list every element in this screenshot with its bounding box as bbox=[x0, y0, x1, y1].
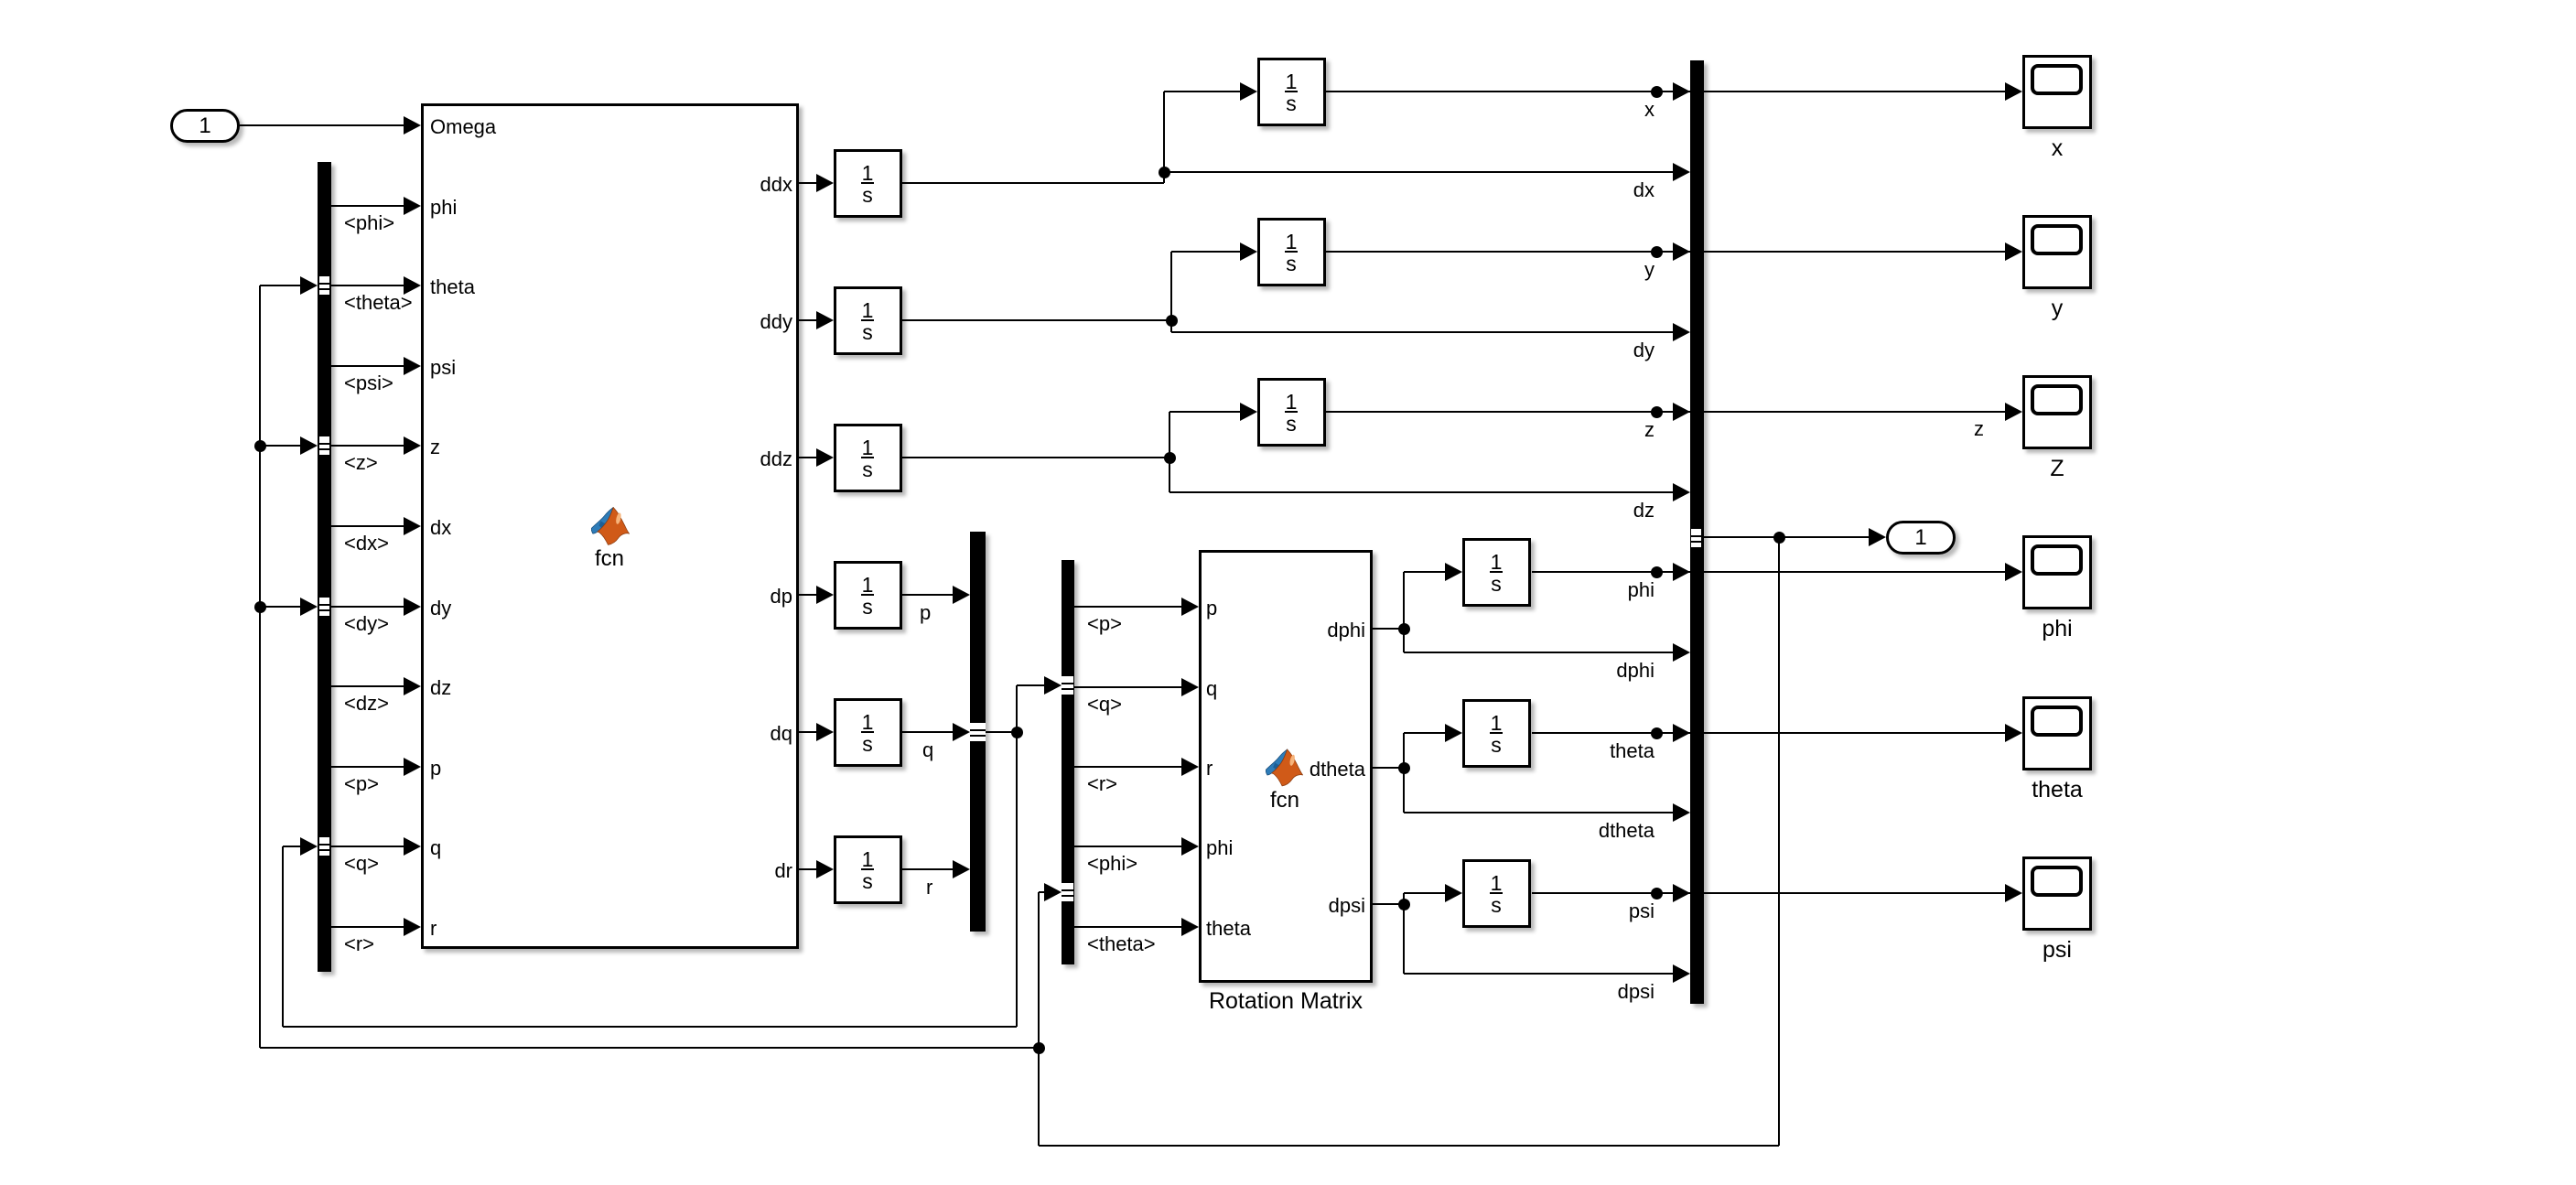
wire y out to scope bbox=[1326, 251, 2006, 253]
arrowhead into fcn z bbox=[404, 436, 421, 455]
wire demux1 dy out bbox=[331, 606, 404, 608]
integrator ddy 1/s bbox=[834, 286, 902, 355]
label RM port r bbox=[1206, 759, 1213, 779]
arrowhead into theta integrator bbox=[1445, 724, 1462, 742]
wire ddz integrator out bbox=[902, 457, 1169, 458]
junction output node bbox=[1773, 532, 1785, 544]
integrator phi 1/s bbox=[1462, 538, 1531, 607]
label fcn port theta bbox=[430, 277, 475, 297]
label fcn port dp bbox=[771, 587, 792, 607]
wire fcn ddx out bbox=[799, 182, 817, 184]
label fcn port r bbox=[430, 919, 437, 939]
integrator dq 1/s bbox=[834, 698, 902, 767]
label scope name psi bbox=[1874, 939, 2240, 962]
arrowhead demux2 lower collar bbox=[1044, 883, 1062, 901]
scope theta bbox=[2022, 696, 2092, 770]
output mux bar bbox=[1690, 60, 1704, 1004]
arrowhead into integrator dr bbox=[816, 860, 834, 878]
wire demux1 dz out bbox=[331, 685, 404, 687]
mux output collar bbox=[1691, 529, 1701, 547]
arrowhead outport bbox=[1869, 528, 1886, 546]
wire feedback state bottom bbox=[260, 1047, 1039, 1049]
arrowhead into psi integrator bbox=[1445, 884, 1462, 902]
integrator theta 1/s bbox=[1462, 699, 1531, 768]
label select label2 <phi> bbox=[1087, 854, 1137, 874]
arrowhead into y integrator bbox=[1240, 242, 1257, 261]
arrowhead into x integrator bbox=[1240, 82, 1257, 101]
label fcn port ddx bbox=[760, 175, 792, 195]
wire RM dtheta out bbox=[1373, 767, 1404, 769]
outport block 1 bbox=[1886, 521, 1956, 555]
arrowhead into fcn dy bbox=[404, 598, 421, 616]
wire mux out bbox=[1704, 536, 1870, 538]
wire demux1 z out bbox=[331, 445, 404, 447]
wire dpsi to mux bbox=[1404, 973, 1674, 975]
label fcn port z bbox=[430, 437, 440, 458]
arrowhead mux psi bbox=[1673, 884, 1690, 902]
wire p to mux1 bbox=[902, 594, 954, 596]
wire to demux2 lower bbox=[1039, 891, 1045, 893]
label select label <p> bbox=[344, 774, 379, 794]
demux2 collar lower bbox=[1062, 883, 1073, 901]
arrowhead scope y bbox=[2005, 242, 2022, 261]
junction y node bbox=[1651, 246, 1663, 258]
wire feedback state stub theta bbox=[260, 285, 301, 286]
wire demux1 psi out bbox=[331, 365, 404, 367]
arrowhead mux1 q bbox=[953, 723, 970, 741]
label fcn port p bbox=[430, 759, 441, 779]
wire to z integrator bbox=[1169, 411, 1241, 413]
label scope name y bbox=[1874, 297, 2240, 320]
label fcn port q bbox=[430, 838, 441, 858]
label fcn port ddz bbox=[760, 449, 792, 469]
scope Z bbox=[2022, 375, 2092, 449]
wire demux1 phi out bbox=[331, 205, 404, 207]
junction dtheta node bbox=[1398, 762, 1410, 774]
wire fcn dp out bbox=[799, 594, 817, 596]
wire demux1 theta out bbox=[331, 285, 404, 286]
arrowhead into integrator ddz bbox=[816, 448, 834, 467]
junction feedback split bbox=[1033, 1042, 1045, 1054]
demux2 collar upper bbox=[1062, 676, 1073, 695]
label wire label r bbox=[926, 878, 932, 898]
arrowhead demux1 q collar bbox=[300, 837, 318, 856]
label fcn port phi bbox=[430, 198, 457, 218]
arrowhead demux1 dy collar bbox=[300, 598, 318, 616]
wire dy to mux bbox=[1171, 331, 1674, 333]
label wire label dx at mux bbox=[1633, 180, 1654, 200]
wire demux1 p out bbox=[331, 766, 404, 768]
wire q loop bottom bbox=[283, 1026, 1017, 1028]
demux1 collar z bbox=[319, 436, 329, 455]
wire dz to mux bbox=[1169, 491, 1674, 493]
wire dpsi to integrator bbox=[1404, 892, 1446, 894]
wire dtheta to mux bbox=[1404, 812, 1674, 813]
arrowhead RM p bbox=[1181, 598, 1199, 616]
label RM port phi bbox=[1206, 838, 1233, 858]
scope x bbox=[2022, 55, 2092, 129]
arrowhead scope theta bbox=[2005, 724, 2022, 742]
wire ddx riser bbox=[1163, 92, 1165, 183]
wire q loop down bbox=[1016, 732, 1018, 1027]
wire fcn ddz out bbox=[799, 457, 817, 458]
arrowhead scope phi bbox=[2005, 563, 2022, 581]
label wire label q bbox=[922, 740, 933, 760]
junction x node bbox=[1651, 86, 1663, 98]
mux1 output collar bbox=[970, 723, 986, 741]
label RM port p bbox=[1206, 598, 1217, 619]
arrowhead into fcn phi bbox=[404, 197, 421, 215]
arrowhead demux2 upper collar bbox=[1044, 676, 1062, 695]
junction dphi node bbox=[1398, 623, 1410, 635]
label select label2 <p> bbox=[1087, 614, 1122, 634]
arrowhead mux dpsi bbox=[1673, 964, 1690, 983]
wire phi out to scope bbox=[1532, 571, 2006, 573]
label wire label x at mux bbox=[1644, 100, 1654, 120]
arrowhead into fcn theta bbox=[404, 276, 421, 295]
wire to demux2 upper bbox=[1017, 684, 1045, 686]
label RM fcn text bbox=[1102, 790, 1468, 812]
wire demux2 q out bbox=[1074, 686, 1182, 688]
wire ddy riser bbox=[1170, 252, 1172, 332]
arrowhead RM q bbox=[1181, 678, 1199, 696]
arrowhead scope psi bbox=[2005, 884, 2022, 902]
label select label <dz> bbox=[344, 694, 389, 714]
label wire label dz at mux bbox=[1633, 501, 1654, 521]
label fcn port ddy bbox=[760, 312, 792, 332]
label scope name Z bbox=[1874, 458, 2240, 480]
wire feedback state stub dy bbox=[260, 606, 301, 608]
wire demux2 p out bbox=[1074, 606, 1182, 608]
arrowhead scope z bbox=[2005, 403, 2022, 421]
label wire label dy at mux bbox=[1633, 340, 1654, 361]
scope phi bbox=[2022, 535, 2092, 609]
label fcn port dx bbox=[430, 518, 451, 538]
arrowhead into fcn dx bbox=[404, 517, 421, 535]
wire r to mux1 bbox=[902, 868, 954, 870]
RM fcn icon bbox=[1266, 749, 1303, 787]
label wire label dpsi at mux bbox=[1618, 982, 1654, 1002]
arrowhead into fcn psi bbox=[404, 357, 421, 375]
arrowhead into integrator dp bbox=[816, 586, 834, 604]
wire q loop stub bbox=[283, 846, 301, 847]
arrowhead into fcn p bbox=[404, 758, 421, 776]
junction z node bbox=[1651, 406, 1663, 418]
wire fcn dq out bbox=[799, 731, 817, 733]
label wire label dtheta at mux bbox=[1599, 821, 1654, 841]
label select label <q> bbox=[344, 854, 379, 874]
demux1 collar q bbox=[319, 837, 329, 856]
arrowhead mux1 r bbox=[953, 860, 970, 878]
wire inport to Omega bbox=[240, 124, 404, 126]
label RM port dphi bbox=[1327, 620, 1365, 641]
label fcn port Omega bbox=[430, 117, 496, 137]
junction dy node bbox=[1166, 315, 1178, 327]
inport block 1 bbox=[170, 109, 240, 143]
demux1 collar theta bbox=[319, 276, 329, 295]
arrowhead into fcn q bbox=[404, 837, 421, 856]
junction state z bbox=[254, 440, 266, 452]
integrator ddz 1/s bbox=[834, 424, 902, 492]
label RM port dpsi bbox=[1329, 896, 1365, 916]
integrator psi 1/s bbox=[1462, 859, 1531, 928]
junction psi node bbox=[1651, 888, 1663, 900]
scope y bbox=[2022, 215, 2092, 289]
label wire label y at mux bbox=[1644, 260, 1654, 280]
label wire label phi at mux bbox=[1628, 580, 1654, 600]
label wire label psi at mux bbox=[1629, 901, 1654, 921]
wire q loop up bbox=[282, 846, 284, 1027]
label fcn port psi bbox=[430, 358, 456, 378]
arrowhead mux dy bbox=[1673, 323, 1690, 341]
wire q to mux1 bbox=[902, 731, 954, 733]
arrowhead into integrator ddx bbox=[816, 174, 834, 192]
integrator dp 1/s bbox=[834, 561, 902, 630]
arrowhead RM r bbox=[1181, 758, 1199, 776]
wire feedback state stub z bbox=[260, 445, 301, 447]
label scope name theta bbox=[1874, 779, 2240, 802]
junction dz node bbox=[1164, 452, 1176, 464]
label wire label dphi at mux bbox=[1616, 661, 1654, 681]
integrator y 1/s bbox=[1257, 218, 1326, 286]
wire ddz riser bbox=[1169, 412, 1170, 492]
scope psi bbox=[2022, 856, 2092, 931]
arrowhead mux dx bbox=[1673, 163, 1690, 181]
wire fcn ddy out bbox=[799, 319, 817, 321]
wire demux2 theta out bbox=[1074, 926, 1182, 928]
wire demux1 r out bbox=[331, 926, 404, 928]
junction phi node bbox=[1651, 566, 1663, 578]
label select label <dx> bbox=[344, 533, 389, 554]
arrowhead mux y bbox=[1673, 242, 1690, 261]
arrowhead into integrator dq bbox=[816, 723, 834, 741]
wire ddx integrator out bbox=[902, 182, 1164, 184]
label select label <z> bbox=[344, 453, 378, 473]
wire feedback main down bbox=[1778, 537, 1780, 1146]
arrowhead into fcn r bbox=[404, 918, 421, 936]
label fcn port dy bbox=[430, 598, 451, 619]
integrator ddx 1/s bbox=[834, 149, 902, 218]
arrowhead mux z bbox=[1673, 403, 1690, 421]
wire demux1 dx out bbox=[331, 525, 404, 527]
wire dpsi riser bbox=[1403, 893, 1405, 974]
arrowhead demux1 theta collar bbox=[300, 276, 318, 295]
demux1 bus selector bar bbox=[318, 162, 331, 972]
wire fcn dr out bbox=[799, 868, 817, 870]
demux1 collar dy bbox=[319, 598, 329, 616]
label scope name phi bbox=[1874, 618, 2240, 641]
arrowhead mux theta bbox=[1673, 724, 1690, 742]
junction pqr node bbox=[1011, 727, 1023, 738]
arrowhead RM phi bbox=[1181, 837, 1199, 856]
arrowhead mux dphi bbox=[1673, 643, 1690, 662]
label scope name x bbox=[1874, 137, 2240, 160]
Rotation Matrix MATLAB Function block bbox=[1199, 550, 1373, 983]
label RM port q bbox=[1206, 679, 1217, 699]
label wire label z before scope bbox=[1974, 419, 1984, 439]
label fcn port dq bbox=[771, 724, 792, 744]
wire psi out to scope bbox=[1532, 892, 2006, 894]
arrowhead mux dz bbox=[1673, 483, 1690, 501]
label wire label p bbox=[920, 603, 931, 623]
label RM port theta bbox=[1206, 919, 1251, 939]
wire mux1 out bbox=[986, 731, 1017, 733]
arrowhead mux x bbox=[1673, 82, 1690, 101]
wire demux2 r out bbox=[1074, 766, 1182, 768]
label select label2 <q> bbox=[1087, 695, 1122, 715]
label select label <r> bbox=[344, 934, 374, 954]
label select label2 <theta> bbox=[1087, 934, 1156, 954]
wire to y integrator bbox=[1171, 251, 1241, 253]
junction theta node bbox=[1651, 727, 1663, 739]
arrowhead into fcn dz bbox=[404, 677, 421, 695]
label fcn port dr bbox=[774, 861, 792, 881]
wire ddy integrator out bbox=[902, 319, 1171, 321]
integrator z 1/s bbox=[1257, 378, 1326, 447]
wire RM dpsi out bbox=[1373, 903, 1404, 905]
junction state dy bbox=[254, 601, 266, 613]
label select label <phi> bbox=[344, 213, 394, 233]
label wire label theta at mux bbox=[1610, 741, 1654, 761]
label RM block name bbox=[1103, 990, 1469, 1013]
mux1 bar (p q r) bbox=[970, 532, 986, 932]
wire theta out to scope bbox=[1532, 732, 2006, 734]
wire dtheta to integrator bbox=[1404, 732, 1446, 734]
wire x out to scope bbox=[1326, 91, 2006, 92]
MATLAB Function block fcn bbox=[421, 103, 799, 949]
arrowhead RM theta bbox=[1181, 918, 1199, 936]
label select label2 <r> bbox=[1087, 774, 1117, 794]
wire dphi riser bbox=[1403, 572, 1405, 652]
label select label <psi> bbox=[344, 373, 393, 393]
wire dx to mux bbox=[1164, 171, 1674, 173]
arrowhead into integrator ddy bbox=[816, 311, 834, 329]
integrator x 1/s bbox=[1257, 58, 1326, 126]
label wire label z at mux bbox=[1644, 420, 1654, 440]
arrowhead mux phi bbox=[1673, 563, 1690, 581]
wire feedback main bottom bbox=[1039, 1145, 1779, 1147]
demux2 bus selector bar bbox=[1062, 560, 1074, 964]
wire dtheta riser bbox=[1403, 733, 1405, 813]
wire dphi to mux bbox=[1404, 652, 1674, 653]
arrowhead into fcn Omega bbox=[404, 116, 421, 135]
arrowhead into z integrator bbox=[1240, 403, 1257, 421]
wire to x integrator bbox=[1164, 91, 1241, 92]
label fcn text bbox=[426, 548, 792, 570]
wire RM dphi out bbox=[1373, 628, 1404, 630]
label select label <dy> bbox=[344, 614, 389, 634]
wire dphi to integrator bbox=[1404, 571, 1446, 573]
arrowhead into phi integrator bbox=[1445, 563, 1462, 581]
wire pqr up bbox=[1016, 685, 1018, 732]
wire z out to scope bbox=[1326, 411, 2006, 413]
wire feedback main up bbox=[1038, 892, 1040, 1146]
label select label <theta> bbox=[344, 293, 413, 313]
fcn icon bbox=[591, 507, 630, 545]
integrator dr 1/s bbox=[834, 835, 902, 904]
label RM port dtheta bbox=[1310, 759, 1365, 780]
wire demux2 phi out bbox=[1074, 846, 1182, 847]
wire feedback state vertical bbox=[259, 285, 261, 1048]
arrowhead demux1 z collar bbox=[300, 436, 318, 455]
wire demux1 q out bbox=[331, 846, 404, 847]
arrowhead scope x bbox=[2005, 82, 2022, 101]
arrowhead mux1 p bbox=[953, 586, 970, 604]
junction dpsi node bbox=[1398, 899, 1410, 910]
label fcn port dz bbox=[430, 678, 451, 698]
arrowhead mux dtheta bbox=[1673, 803, 1690, 822]
junction dx node bbox=[1159, 167, 1170, 178]
